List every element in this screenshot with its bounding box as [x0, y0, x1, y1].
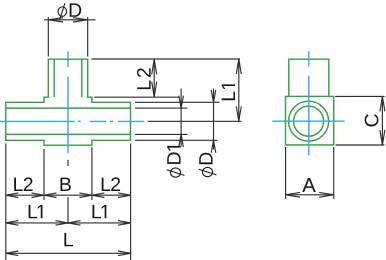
- row2 arrow left end: [6, 221, 18, 226]
- centerline black dash below hex: [67, 160, 69, 166]
- side view outer circle: [289, 101, 329, 141]
- centerline black between row1 and row2: [67, 197, 69, 224]
- dimension C: extension line top: [335, 95, 385, 97]
- row1 label L2 right: [102, 177, 120, 191]
- dimension phiD1: arrow up to bore bottom: [179, 134, 184, 147]
- dimension phiD top: label phi: [58, 3, 67, 19]
- extension line shoulder to right: [94, 96, 179, 98]
- extension line bore bottom to right: [135, 133, 188, 135]
- bottom extension line far left: [5, 144, 7, 260]
- dimension row3 L: line: [6, 252, 131, 254]
- dimension A: extension line left: [285, 147, 287, 199]
- dimension phiD lower: arrow down to body top: [211, 90, 216, 103]
- extension line port top to right: [92, 58, 241, 60]
- side view body square: [286, 96, 334, 144]
- side view top port rectangle: [289, 59, 329, 96]
- dimension phiD1: arrow down to bore top: [179, 96, 184, 109]
- dimension A: extension line right: [333, 147, 335, 199]
- dimension L1 right: label: [222, 84, 235, 100]
- row2 label L1 right: [92, 205, 106, 218]
- dimension C: line: [381, 96, 383, 145]
- row2 arrow right end: [118, 221, 131, 226]
- dimension L2 right: arrow up: [152, 59, 157, 75]
- row2 label L1 left: [29, 205, 43, 218]
- extension line body bottom to right: [135, 139, 218, 141]
- front view outline (tee fitting body): [6, 59, 131, 145]
- row1 arrow pair at hex right: [79, 193, 92, 198]
- row1 label L2 left: [14, 177, 32, 191]
- dimension A: line: [286, 194, 334, 196]
- dimension L1 right: arrow up: [236, 59, 241, 74]
- dimension phiD top: extension line left: [47, 17, 49, 57]
- dimension phiD lower: arrow up to body bottom: [211, 140, 216, 153]
- front view vertical centerline: [67, 52, 69, 68]
- bottom extension line hex right: [91, 147, 93, 200]
- dimension C: label: [365, 114, 379, 126]
- side view vertical centerline: [308, 51, 310, 66]
- dimension phiD lower: line: [213, 89, 215, 150]
- bottom extension line hex left: [43, 149, 45, 200]
- row2 arrow pair at center: [56, 221, 69, 226]
- row1 label B: [60, 178, 70, 191]
- side view inner circle: [294, 106, 324, 136]
- dimension L1 right: line: [238, 59, 240, 121]
- dimension C: arrow down: [380, 130, 385, 145]
- dimension A: label: [302, 178, 315, 192]
- front view horizontal centerline: [0, 120, 75, 122]
- row3 label L: [64, 233, 73, 246]
- dimension C: extension line bottom: [336, 144, 385, 146]
- bottom extension line far right: [130, 144, 132, 260]
- dimension phiD top: label D: [70, 3, 82, 16]
- row1 arrow right end: [118, 193, 131, 198]
- dimension phiD top: arrow left: [48, 18, 63, 22]
- extension line bore top to right: [135, 107, 188, 109]
- extension line body top to right: [135, 101, 220, 103]
- dimension phiD1: label: [167, 146, 185, 177]
- row1 arrow pair at hex left: [32, 193, 45, 198]
- dimension L2 right: arrow down: [152, 82, 157, 98]
- row3 arrow left end: [6, 251, 18, 256]
- dimension C: arrow up: [380, 96, 385, 111]
- row1 arrow left end: [6, 193, 18, 198]
- dimension L1 right: arrow down: [236, 106, 241, 121]
- side view horizontal centerline: [272, 120, 344, 122]
- dimension phiD1: line: [180, 89, 182, 147]
- dimension row1 L2 B L2: line: [6, 194, 131, 196]
- dimension phiD top: dimension line: [44, 19, 96, 21]
- extension line center to right (black): [148, 120, 242, 122]
- front view horizontal bore bottom line: [6, 133, 131, 135]
- front view vertical port bore left line: [53, 59, 55, 97]
- dimension L2 right: label: [137, 68, 151, 89]
- front view vertical port bore right line: [81, 59, 83, 97]
- dimension L2 right: line: [153, 59, 155, 97]
- dimension phiD top: extension line right: [87, 17, 89, 57]
- dimension phiD lower: label: [199, 153, 217, 177]
- dimension row2 L1 L1: line: [6, 222, 131, 224]
- dimension phiD top: arrow right: [73, 18, 88, 22]
- front view horizontal bore top line: [6, 107, 131, 109]
- dimension A: arrow left: [286, 192, 301, 197]
- row3 arrow right end: [118, 251, 131, 256]
- dimension A: arrow right: [319, 192, 334, 197]
